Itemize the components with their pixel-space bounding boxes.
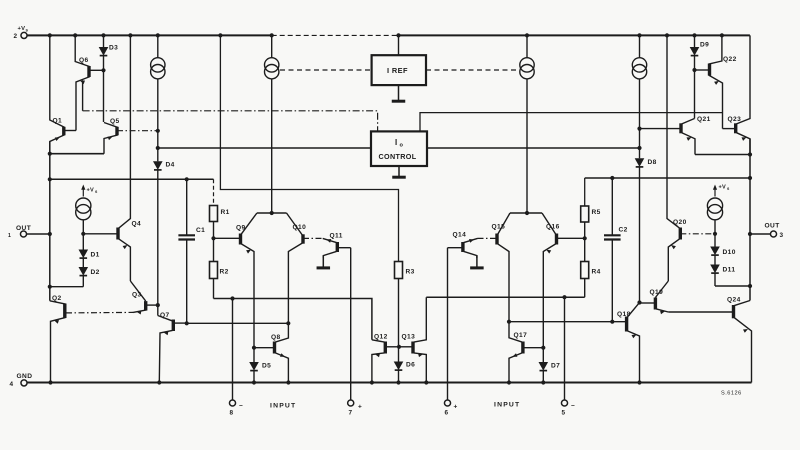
- node Q12 Q13 bases / D6: [397, 345, 401, 349]
- node Q9/Q10 emitters: [270, 211, 274, 215]
- svg-text:2: 2: [14, 33, 18, 40]
- current source I1: [157, 35, 159, 57]
- node Q6 base / D3: [101, 68, 105, 72]
- svg-text:R2: R2: [220, 269, 229, 276]
- svg-text:+V: +V: [18, 26, 26, 32]
- svg-text:D1: D1: [91, 252, 100, 259]
- ground at Q11 emitter: [322, 256, 324, 268]
- node OUT3 pin wire: [748, 232, 752, 236]
- diode D3: [103, 35, 105, 47]
- wire Q1/Q5 emitters to output node: [50, 153, 104, 155]
- svg-text:Q12: Q12: [374, 334, 388, 341]
- node Q4 base / D1 anode: [81, 232, 85, 236]
- block Io CONTROL: [371, 131, 427, 166]
- svg-text:+V: +V: [719, 185, 726, 191]
- wire bias from Io CONTROL right: [420, 113, 723, 132]
- junction on +Vs rail x=527: [525, 33, 529, 37]
- wire R5 to node: [584, 222, 586, 238]
- node Q15/Q16 emitters: [525, 211, 529, 215]
- wire rail to R1 dashed drop: [213, 179, 215, 205]
- svg-text:D6: D6: [406, 362, 415, 369]
- wire D4 bias line down to Q3/Q7: [157, 170, 159, 316]
- wire R2 down to pin8 line: [213, 279, 215, 299]
- wire Q9/Q10 emitter node: [257, 212, 287, 214]
- diode D9: [694, 35, 696, 47]
- wire I3 down to Q15/Q16 emitters: [526, 79, 528, 213]
- svg-text:Q24: Q24: [727, 297, 741, 304]
- junction on +Vs rail x=639.5: [637, 33, 641, 37]
- node Io control right: [637, 146, 641, 150]
- svg-text:8: 8: [230, 410, 234, 417]
- junction on +Vs rail x=271.7: [270, 33, 274, 37]
- junction on +Vs rail x=694.5: [692, 33, 696, 37]
- svg-text:D8: D8: [648, 159, 657, 166]
- wire D8 bias line down to Q18/Q19: [639, 167, 641, 303]
- diode D8: [635, 158, 645, 167]
- svg-text:+: +: [358, 404, 362, 411]
- node Q18 collector / Q19 base: [637, 300, 641, 304]
- svg-text:R1: R1: [221, 209, 230, 216]
- svg-text:INPUT: INPUT: [494, 402, 520, 409]
- svg-text:D7: D7: [551, 363, 560, 370]
- svg-text:D10: D10: [723, 249, 736, 256]
- diode D4: [153, 161, 163, 170]
- wire top +Vs rail: [27, 34, 272, 36]
- diode D6: [398, 347, 400, 362]
- resistor R4: [584, 238, 586, 261]
- node Q8 / Q10 collectors: [286, 321, 290, 325]
- pin 5 inverting input: [564, 297, 566, 400]
- wire OUT3 mid rail right: [585, 177, 750, 179]
- svg-text:5: 5: [562, 410, 566, 417]
- junction on +Vs rail x=157.8: [156, 33, 160, 37]
- junction on GND rail x=371.9: [370, 380, 374, 384]
- wire dashed I REF right: [426, 69, 516, 71]
- junction on +Vs rail x=130.4: [128, 33, 132, 37]
- node Q8 base / D5: [252, 346, 256, 350]
- wire rail to R5 drop: [584, 178, 586, 206]
- capacitor C2: [611, 178, 613, 235]
- svg-text:D3: D3: [109, 45, 118, 52]
- wire Io CONTROL left input: [158, 147, 371, 149]
- svg-text:D4: D4: [166, 162, 175, 169]
- node pin8 / R2: [230, 296, 234, 300]
- svg-text:Q5: Q5: [110, 118, 120, 125]
- ground below I REF: [398, 85, 400, 101]
- wire OUT3 vertical node: [749, 139, 751, 301]
- pin 8 inverting input: [232, 299, 234, 400]
- resistor R2: [213, 238, 215, 261]
- svg-text:Q17: Q17: [514, 332, 528, 339]
- wire D2 to OUT1 node: [50, 286, 84, 288]
- node Q22 base / D9: [692, 68, 696, 72]
- junction on +Vs rail x=667: [665, 33, 669, 37]
- junction on +Vs rail x=398.5: [396, 33, 400, 37]
- wire Q7 collector rail to Q8/Q10 collectors: [187, 322, 289, 324]
- svg-text:R3: R3: [406, 269, 415, 276]
- svg-text:Q14: Q14: [453, 232, 467, 239]
- svg-text:+: +: [454, 404, 458, 411]
- diode D10: [714, 234, 716, 247]
- node OUT1 rail: [48, 177, 52, 181]
- svg-text:I REF: I REF: [387, 66, 408, 75]
- node D2 cathode / OUT1: [48, 285, 52, 289]
- svg-text:I: I: [395, 138, 398, 147]
- junction on GND rail x=543.3: [541, 380, 545, 384]
- wire R1 to node: [213, 222, 215, 239]
- wire Q15/Q16 emitter node: [510, 212, 542, 214]
- svg-text:R4: R4: [592, 269, 601, 276]
- wire dashed I REF left: [280, 69, 372, 71]
- wire GND bottom rail: [27, 382, 752, 384]
- node Q17 / Q15 collectors: [507, 320, 511, 324]
- node OUT3 rail: [748, 176, 752, 180]
- wire bias dash-dot into Io CONTROL left: [83, 111, 378, 132]
- node Q3 base / Q7 base: [156, 303, 160, 307]
- svg-text:GND: GND: [17, 373, 33, 380]
- svg-text:Q22: Q22: [723, 56, 737, 63]
- block I REF: [372, 55, 426, 85]
- svg-text:1: 1: [8, 233, 11, 239]
- svg-text:OUT: OUT: [765, 222, 780, 229]
- node C1 top: [185, 177, 189, 181]
- resistor R1: [210, 206, 218, 222]
- wire pin8 node to Q12 collector: [214, 299, 372, 340]
- node C2 top: [610, 176, 614, 180]
- node Q20 base / D10 anode: [713, 232, 717, 236]
- svg-text:D9: D9: [700, 42, 709, 49]
- junction on GND rail x=50.5: [48, 380, 52, 384]
- node OUT1 / Q1 Q5 emitters: [48, 152, 52, 156]
- node D11 cathode / OUT3: [748, 284, 752, 288]
- junction on GND rail x=398.5: [396, 380, 400, 384]
- wire Q18 base rail from Q17/C2: [509, 321, 627, 323]
- ground at Q14 emitter: [476, 256, 478, 268]
- diode D1: [82, 234, 84, 250]
- node OUT3 / Q21 Q23 emitters: [748, 152, 752, 156]
- svg-text:R5: R5: [592, 209, 601, 216]
- wire I1 down to D4 node: [157, 79, 159, 161]
- svg-text:Q19: Q19: [650, 289, 664, 296]
- diode D5: [249, 362, 259, 371]
- current source I4: [639, 35, 641, 57]
- pin 6 non-inverting input: [447, 248, 449, 400]
- svg-text:D11: D11: [723, 267, 736, 274]
- wire Q4 emitter to Q3 collector: [130, 281, 145, 301]
- wire top rail dashed segment: [272, 34, 399, 36]
- node pin5 / R4: [562, 295, 566, 299]
- node C2 bottom: [610, 320, 614, 324]
- junction on +Vs rail x=75.2: [73, 33, 77, 37]
- svg-text:Q21: Q21: [697, 116, 711, 123]
- svg-text:D5: D5: [262, 363, 271, 370]
- junction on +Vs rail x=220.4: [218, 33, 222, 37]
- svg-text:−: −: [571, 403, 575, 410]
- wire bias feed to R3: [220, 35, 398, 261]
- wire I REF to top rail: [398, 35, 400, 55]
- svg-text:Q8: Q8: [271, 334, 281, 341]
- wire Q20 emitter to Q19 collector: [655, 281, 668, 298]
- wire R3 down to Q12/Q13 base node: [398, 279, 400, 347]
- svg-text:4: 4: [10, 381, 14, 388]
- diode D2: [82, 258, 84, 267]
- wire Q21/Q23 emitters to output node: [695, 154, 750, 156]
- svg-text:CONTROL: CONTROL: [379, 152, 417, 161]
- svg-text:D2: D2: [91, 269, 100, 276]
- svg-text:+V: +V: [87, 188, 94, 194]
- svg-text:Q11: Q11: [330, 233, 343, 240]
- svg-text:−: −: [239, 403, 243, 410]
- node Q17 base / D7: [541, 346, 545, 350]
- svg-text:Q18: Q18: [617, 311, 631, 318]
- current source I3: [526, 35, 528, 57]
- junction on GND rail x=426.3: [424, 380, 428, 384]
- current source I6 with +Vs arrow: [714, 187, 716, 197]
- junction on GND rail x=159.3: [157, 380, 161, 384]
- svg-text:6: 6: [445, 410, 449, 417]
- node R5/R4 / Q16 base: [583, 236, 587, 240]
- diode D11: [714, 255, 716, 264]
- junction on +Vs rail x=721.9: [720, 33, 724, 37]
- svg-text:Q4: Q4: [132, 221, 142, 228]
- ground below Io CONTROL: [398, 166, 400, 177]
- junction on +Vs rail x=103.5: [101, 33, 105, 37]
- svg-text:7: 7: [349, 410, 353, 417]
- svg-text:S.6126: S.6126: [721, 391, 742, 397]
- junction on GND rail x=254: [252, 380, 256, 384]
- node Io control left: [156, 146, 160, 150]
- junction on GND rail x=509: [507, 380, 511, 384]
- junction on GND rail x=288.4: [286, 380, 290, 384]
- capacitor C1: [186, 179, 188, 235]
- svg-text:C2: C2: [619, 227, 628, 234]
- node Q5 base / D4 anode: [156, 129, 160, 133]
- svg-text:Q23: Q23: [728, 116, 742, 123]
- node Q21 base / D8 anode: [637, 127, 641, 131]
- node Q7 collector / C1: [185, 321, 189, 325]
- wire R4 down to pin5 line: [584, 279, 586, 298]
- current source I5 with +Vs arrow: [82, 187, 84, 197]
- wire Io CONTROL right output: [427, 147, 640, 149]
- junction on GND rail x=639.5: [637, 380, 641, 384]
- wire I4 down to D8 node: [639, 79, 641, 158]
- svg-text:o: o: [400, 143, 404, 149]
- pin 7 non-inverting input: [350, 248, 352, 400]
- node R1/R2 / Q9 base: [211, 236, 215, 240]
- wire pin5 node to Q13 collector: [426, 296, 584, 298]
- wire OUT1 vertical node: [49, 142, 51, 301]
- wire D11 to OUT3 node: [715, 285, 750, 287]
- wire I2 down to Q9/Q10 emitters: [271, 79, 273, 213]
- diode D7: [539, 362, 549, 371]
- svg-text:Q13: Q13: [402, 334, 416, 341]
- svg-text:Q3: Q3: [132, 292, 142, 299]
- svg-text:3: 3: [780, 232, 784, 239]
- node OUT1 pin wire: [48, 232, 52, 236]
- resistor R3: [395, 262, 403, 279]
- junction on +Vs rail x=49.8: [48, 33, 52, 37]
- resistor R5: [581, 206, 589, 222]
- wire Q19 emitter to Q24 base: [668, 311, 733, 313]
- wire OUT1 mid rail left: [50, 178, 214, 180]
- svg-text:C1: C1: [196, 227, 205, 234]
- svg-text:INPUT: INPUT: [270, 403, 296, 410]
- current source I2: [271, 35, 273, 57]
